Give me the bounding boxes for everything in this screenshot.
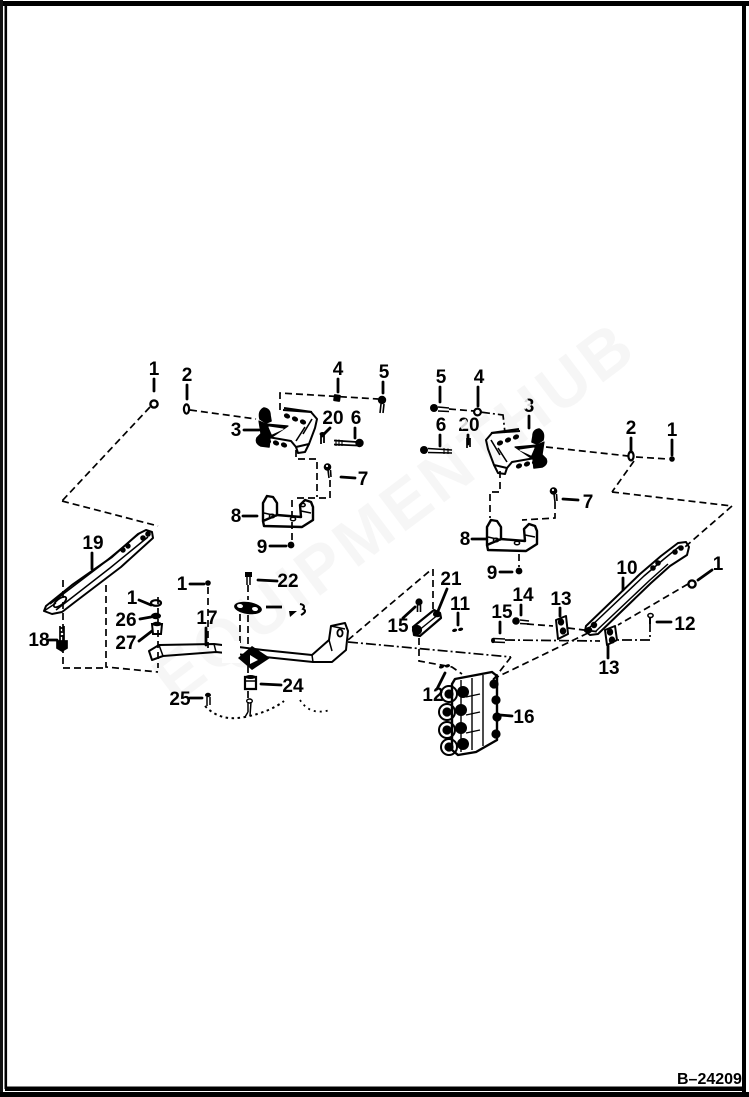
svg-text:10: 10: [616, 558, 637, 579]
svg-text:6: 6: [436, 415, 447, 436]
svg-text:22: 22: [277, 571, 298, 592]
svg-text:8: 8: [231, 506, 242, 527]
svg-text:17: 17: [196, 608, 217, 629]
svg-text:21: 21: [440, 569, 462, 590]
svg-text:9: 9: [487, 563, 498, 584]
svg-text:14: 14: [512, 585, 534, 606]
svg-text:4: 4: [333, 359, 344, 380]
svg-text:15: 15: [491, 602, 513, 623]
svg-text:1: 1: [177, 574, 188, 595]
svg-text:3: 3: [231, 420, 242, 441]
svg-text:9: 9: [257, 537, 268, 558]
svg-text:7: 7: [583, 492, 594, 513]
svg-text:2: 2: [182, 365, 193, 386]
svg-text:5: 5: [379, 362, 390, 383]
svg-text:4: 4: [474, 367, 485, 388]
svg-text:7: 7: [358, 469, 369, 490]
svg-text:B–24209: B–24209: [677, 1071, 742, 1088]
svg-text:27: 27: [115, 633, 136, 654]
svg-text:20: 20: [322, 408, 343, 429]
svg-text:13: 13: [598, 658, 619, 679]
svg-text:6: 6: [351, 408, 362, 429]
svg-text:24: 24: [282, 676, 304, 697]
svg-text:12: 12: [674, 614, 695, 635]
svg-text:5: 5: [436, 367, 447, 388]
svg-text:25: 25: [169, 689, 191, 710]
svg-text:1: 1: [713, 554, 724, 575]
svg-text:1: 1: [127, 588, 138, 609]
svg-text:26: 26: [115, 610, 136, 631]
svg-text:16: 16: [513, 707, 534, 728]
svg-text:8: 8: [460, 529, 471, 550]
svg-text:15: 15: [387, 616, 409, 637]
svg-text:11: 11: [450, 594, 471, 615]
svg-text:13: 13: [550, 589, 571, 610]
svg-text:1: 1: [667, 420, 678, 441]
svg-text:18: 18: [28, 630, 49, 651]
svg-text:19: 19: [82, 533, 103, 554]
svg-text:1: 1: [149, 359, 160, 380]
svg-text:2: 2: [626, 418, 637, 439]
